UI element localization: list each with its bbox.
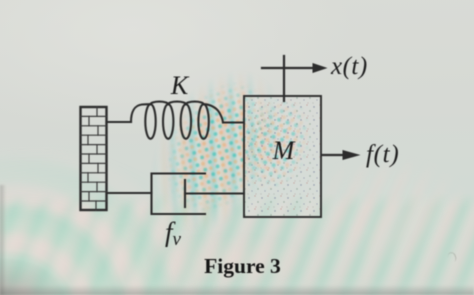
damper fv cylinder [152,174,206,215]
tiny smudge mark bottom right [447,251,457,263]
damper piston rod to mass [185,192,244,194]
spring K coil [131,102,223,139]
f(t) arrow [322,154,346,156]
svg-text:Figure 3: Figure 3 [204,254,281,278]
wire: wall to spring [107,121,132,123]
mass M box [244,96,321,217]
bottom mint diagonal stripes [0,192,474,295]
dots inside mass upper-left [227,90,332,224]
pale pink/cream stripes right of mass [300,150,474,280]
svg-text:K: K [170,71,190,100]
left dark edge strip bottom [0,185,6,295]
bottom dark edge [0,285,474,295]
svg-text:f(t): f(t) [366,141,399,168]
wire: spring to mass [223,121,244,123]
damper piston [184,180,186,207]
central moire colorful band (stripes) [93,18,338,292]
x(t) arrow [262,67,315,69]
soft pink wash bottom-center [120,225,340,295]
bottom-left swirl rings [0,140,220,295]
central moire dot grid [105,31,329,279]
svg-text:x(t): x(t) [330,53,368,80]
svg-text:fv: fv [165,217,182,250]
wire: wall to damper [107,192,152,194]
x(t) reference line [283,56,285,101]
wall [81,107,107,210]
wall bricks [81,107,107,210]
svg-text:M: M [272,136,296,165]
